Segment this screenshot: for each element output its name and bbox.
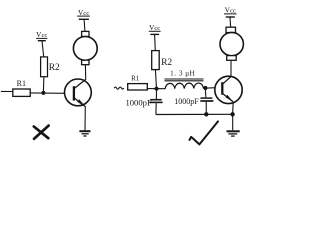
svg-text:Vcc: Vcc (78, 8, 89, 17)
power rail Vcc (right bias) (149, 23, 161, 50)
svg-text:R1: R1 (131, 74, 140, 82)
sounder / transducer B (right) (220, 27, 243, 60)
resistor R2 (left) (41, 57, 48, 77)
svg-text:R2: R2 (49, 63, 60, 73)
svg-text:Vcc: Vcc (225, 6, 236, 15)
power rail Vcc (left bias) (36, 30, 47, 57)
node base junction dot (left) (41, 91, 45, 95)
svg-text:R1: R1 (17, 79, 26, 88)
wire rail to ground (right) (232, 114, 234, 130)
capacitor C1 (149, 91, 162, 115)
capacitor C2 (200, 90, 213, 114)
wire input lead (left edge) (1, 90, 13, 92)
node rail-C2 dot (204, 112, 208, 116)
node junction2 dot (203, 86, 207, 90)
wire R1 to inductor (through junction) (147, 88, 165, 90)
svg-text:1000pF: 1000pF (125, 98, 151, 108)
node rail-emitter dot (230, 112, 234, 116)
wire bottom rail (156, 113, 233, 115)
wire collector to sounder (right) (230, 60, 232, 76)
svg-text:Vcc: Vcc (36, 30, 47, 39)
wire emitter to rail (232, 102, 235, 114)
wire collector to sounder (left) (84, 65, 86, 80)
wrong mark X (34, 126, 49, 139)
ground (right) (227, 131, 240, 136)
power rail Vcc (right collector) (224, 6, 237, 28)
svg-text:R2: R2 (161, 58, 172, 68)
wire input lead (wavy, right) (114, 87, 124, 89)
resistor R2 (right) (152, 51, 160, 70)
svg-text:1000pF: 1000pF (174, 97, 199, 106)
correct mark check (190, 121, 219, 144)
transistor Q (right, NPN) (215, 76, 242, 103)
resistor R1 (right) (128, 84, 148, 90)
inductor L coil (165, 83, 203, 89)
inductor core lines (165, 79, 204, 81)
power rail Vcc (left collector) (77, 8, 90, 32)
sounder / transducer B (left) (73, 31, 97, 64)
wire R1 to transistor base (30, 92, 64, 94)
node junction1 dot (154, 87, 158, 91)
wire coil to transistor base (203, 87, 215, 90)
resistor R1 (left) (13, 89, 30, 96)
ground (left) (79, 131, 90, 136)
wire R2 bottom to junction (155, 70, 156, 87)
transistor Q (left, NPN) (65, 79, 92, 107)
wire emitter to ground (left) (84, 107, 86, 131)
svg-text:1. 3 μH: 1. 3 μH (170, 69, 195, 77)
wire R2 bottom to base node (42, 77, 45, 91)
